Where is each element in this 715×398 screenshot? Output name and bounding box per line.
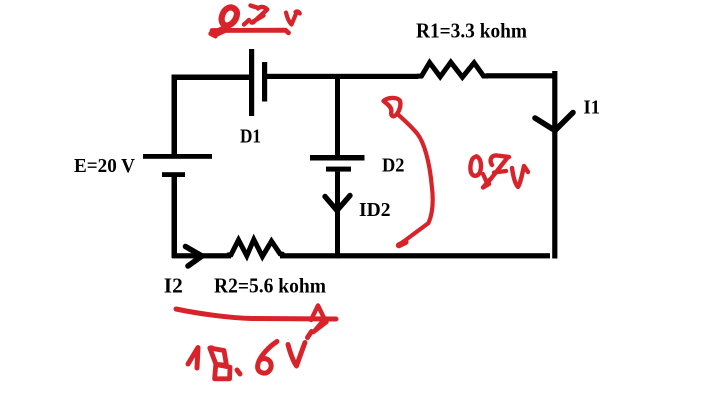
diode D1 (short bar / cathode plate) (262, 62, 267, 102)
wire top-left horizontal segment (node A to D1) (172, 75, 251, 81)
annotation red 18.6 V digit 1 (188, 348, 198, 369)
wire left vertical segment (top, node A to battery E) (172, 75, 178, 156)
label I1 (584, 97, 601, 119)
wire middle branch vertical (D2 to bottom wire) (335, 172, 340, 259)
svg-text:D2: D2 (382, 154, 405, 176)
annotation red curve with top loop (middle) (384, 98, 433, 245)
label R2=5.6 kohm (214, 274, 326, 298)
wire left vertical segment (battery E to bottom wire) (172, 177, 178, 258)
annotation top red decimal point (244, 20, 249, 25)
resistor R1 zigzag (417, 62, 488, 77)
current arrow I2 (right) (186, 247, 203, 267)
diode D2 (long bar) (310, 155, 365, 161)
annotation red 18.6 V digit 8 (208, 345, 230, 379)
battery E negative plate (short) (162, 172, 185, 177)
annotation bottom red arrowhead loop (311, 306, 327, 333)
annotation middle red 7 with arrow tail (483, 155, 509, 187)
annotation middle red comma (483, 174, 487, 183)
wire top horizontal segment from D1 to R1 (266, 74, 418, 79)
label R1=3.3 kohm (416, 19, 527, 43)
battery E positive plate (long) (143, 154, 212, 159)
label E=20 V (74, 155, 136, 177)
wire bottom horizontal segment (left of R2) (172, 253, 231, 258)
wire top horizontal segment from R1 to right corner (486, 73, 555, 78)
svg-text:E=20 V: E=20 V (74, 155, 136, 177)
label ID2 (359, 199, 391, 221)
annotation top red 0 (of 0.7 V) (222, 7, 237, 25)
svg-text:I2: I2 (164, 274, 183, 298)
svg-text:I1: I1 (584, 97, 601, 119)
current arrow ID2 (down) (325, 196, 350, 211)
label D1 (240, 125, 261, 147)
svg-text:R1=3.3 kohm: R1=3.3 kohm (416, 19, 527, 43)
wire right vertical segment (552, 71, 557, 259)
annotation bottom red arrow line (176, 309, 336, 319)
wire bottom horizontal segment (right of R2) (280, 253, 550, 258)
annotation top red V (286, 11, 300, 24)
annotation top red underline (210, 28, 289, 37)
resistor R2 zigzag (227, 240, 284, 257)
annotation red 18.6 V digit 6 (258, 342, 277, 374)
annotation middle red u (V) (512, 166, 528, 187)
diode D2 (short bar) (326, 167, 351, 172)
annotation red 18.6 V letter V (288, 332, 312, 367)
annotation middle red 0 (of 0.7u) (470, 156, 481, 176)
diode D1 (long bar / anode plate) (249, 49, 254, 116)
svg-text:ID2: ID2 (359, 199, 391, 221)
current arrow I1 (down) (535, 113, 573, 131)
annotation red 18.6 V decimal point (237, 370, 240, 374)
annotation top red 7 (251, 6, 268, 23)
label D2 (382, 154, 405, 176)
label I2 (164, 274, 183, 298)
svg-text:R2=5.6 kohm: R2=5.6 kohm (214, 274, 326, 298)
svg-text:D1: D1 (240, 125, 261, 147)
wire middle branch vertical (top wire to D2) (335, 78, 340, 156)
